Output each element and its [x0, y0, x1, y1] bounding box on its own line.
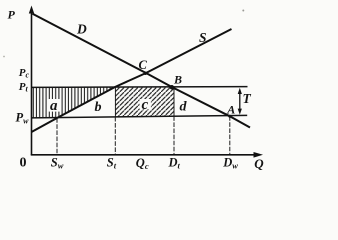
svg-text:a: a	[50, 98, 58, 114]
guide line Dw	[229, 116, 231, 154]
P axis	[31, 12, 33, 156]
region a (vertical-hatched trapezoid between Pt, Pw, axis and supply)	[32, 87, 115, 118]
guide line Dt	[173, 116, 175, 154]
svg-text:Q: Q	[254, 156, 264, 171]
point C dot	[144, 72, 147, 75]
tariff double arrow T	[239, 92, 241, 112]
Q axis	[31, 154, 256, 156]
guide line Sw	[56, 118, 58, 154]
svg-text:0: 0	[20, 156, 27, 171]
scan speck left edge	[3, 56, 5, 58]
svg-text:T: T	[243, 91, 252, 106]
P axis arrowhead	[29, 6, 34, 14]
label c (white box on hatching)	[140, 99, 151, 109]
svg-text:P: P	[8, 8, 16, 22]
svg-text:d: d	[180, 99, 188, 114]
demand curve D	[33, 14, 251, 128]
price line Pw	[32, 115, 248, 118]
point B dot	[170, 85, 175, 90]
svg-text:S: S	[199, 30, 207, 45]
supply curve S	[32, 29, 232, 132]
scan speck top right	[242, 10, 244, 12]
point A dot	[228, 115, 231, 118]
price line Pt	[32, 86, 248, 89]
label a (white box on hatching)	[48, 99, 61, 112]
svg-text:A: A	[226, 103, 235, 117]
region c (diagonally hatched rectangle St..Dt between Pt and Pw)	[115, 87, 174, 117]
svg-text:B: B	[173, 72, 182, 86]
svg-text:D: D	[76, 22, 87, 37]
guide line St	[114, 117, 116, 155]
svg-text:b: b	[95, 100, 102, 115]
svg-text:C: C	[139, 58, 148, 72]
Q axis arrowhead	[254, 152, 264, 158]
svg-text:c: c	[142, 97, 149, 113]
